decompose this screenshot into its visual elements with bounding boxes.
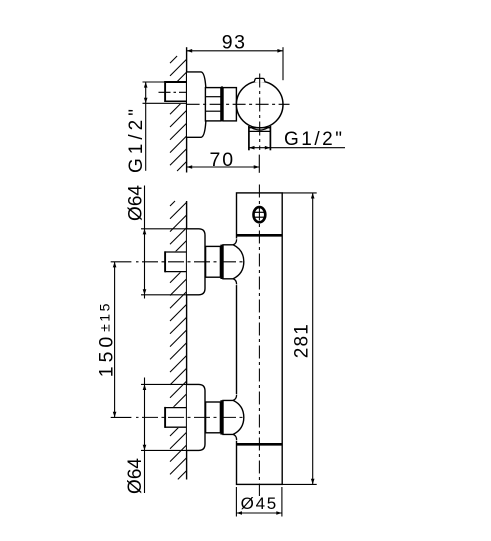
connector hex nut (side view): [205, 88, 221, 121]
dimension phi45: dimension line: [236, 512, 282, 514]
svg-text:G1/2": G1/2": [284, 129, 344, 150]
connection centerline upper: [136, 261, 246, 263]
valve body neck (side view): [223, 88, 236, 121]
body upper section line (thick): [237, 234, 283, 237]
svg-text:150: 150: [95, 333, 117, 378]
svg-text:93: 93: [222, 32, 247, 54]
dimension phi45: extension lines: [235, 487, 237, 517]
svg-text:Ø64: Ø64: [125, 185, 146, 221]
wall escutcheon (side view): [187, 72, 206, 137]
connector dome upper (front view): [223, 245, 244, 279]
dimension line 70: [187, 166, 260, 168]
connector seal ring (side view): [221, 86, 223, 121]
body vertical centerline: [258, 185, 260, 497]
knob vertical centerline (side view): [259, 74, 261, 151]
main axis centerline (side view): [187, 103, 290, 105]
connector dome lower (front view): [223, 400, 244, 434]
control knob circle (side view): [236, 81, 283, 128]
dimension phi64 upper: dimension line: [144, 186, 146, 299]
outlet connection (side view): [248, 126, 250, 150]
dimension phi64 lower: dimension line: [144, 378, 146, 494]
wall surface line (front view): [186, 201, 188, 480]
connector hex lower (front view): [206, 402, 221, 433]
connector seal ring upper (front view): [220, 245, 223, 279]
dimension G1/2 left: extension line top: [143, 81, 166, 83]
inlet pipe centerline (side view): [159, 91, 192, 93]
wall surface line (side view): [186, 47, 188, 172]
dimension 281: dimension line: [312, 193, 314, 485]
body fillet lower (front view): [233, 395, 237, 401]
connector hex upper (front view): [206, 246, 221, 277]
dimension 281: extension lines: [282, 192, 317, 194]
svg-text:G1/2": G1/2": [126, 105, 147, 173]
svg-text:±15: ±15: [96, 301, 112, 332]
svg-text:Ø45: Ø45: [241, 494, 278, 513]
dimension G1/2 left: extension line bottom: [143, 102, 187, 104]
wall hatching (front view): [170, 201, 175, 206]
dimension 150: extension lines: [111, 261, 132, 263]
wall escutcheon upper (front view): [187, 229, 205, 295]
dimension line 93: [187, 50, 283, 52]
dimension G1/2 left: dimension line: [145, 82, 147, 171]
mixer body column: [237, 193, 283, 485]
inlet pipe upper (front view): [165, 251, 187, 253]
dimension phi64 lower: extension lines: [141, 383, 187, 385]
dimension 150: dimension line: [114, 262, 116, 418]
extension line right of dim 93: [282, 47, 284, 80]
body edge gap at lower connector: [236, 394, 238, 441]
knob button (side view): [254, 78, 265, 82]
wall escutcheon lower (front view): [187, 384, 205, 450]
wall hatching (side view): [170, 56, 177, 63]
inlet pipe (side view): [165, 81, 187, 83]
inlet pipe lower (front view): [165, 407, 187, 409]
dimension phi64 upper: extension lines: [141, 228, 187, 230]
hatch mask lower pipe (front view): [155, 407, 187, 428]
svg-text:70: 70: [210, 149, 236, 171]
shower hose outlet hole (ellipse): [254, 207, 266, 222]
connector seal ring lower (front view): [220, 400, 223, 434]
outlet dimension G1/2: dimension line with leader: [249, 147, 345, 149]
body fillet upper (front view): [233, 239, 237, 245]
body lower section line (thick): [237, 443, 283, 446]
svg-text:Ø64: Ø64: [125, 458, 146, 494]
hatch mask for inlet pipe (side view): [155, 81, 187, 104]
connection centerline lower: [136, 416, 246, 418]
body edge gap at upper connector: [236, 239, 238, 286]
svg-text:281: 281: [292, 323, 313, 358]
hatch mask upper pipe (front view): [155, 251, 187, 272]
extension line right of dim 70: [258, 155, 260, 173]
